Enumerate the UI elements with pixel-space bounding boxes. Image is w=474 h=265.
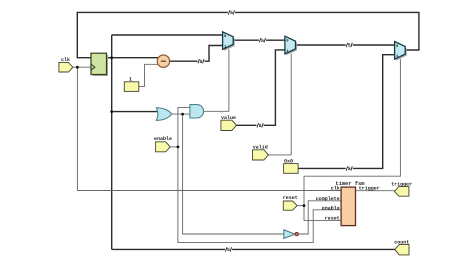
wire: inverter output complete net to fsm complete pin	[299, 201, 341, 234]
wire: OR output net down to inverter input	[183, 114, 284, 234]
inverter G3	[284, 230, 299, 239]
bus width label /5/ on mux M2 to mux M3 bus	[346, 42, 353, 49]
bus width label /5/ on count bus	[225, 247, 232, 254]
wire: OR gate output to AND gate input B	[172, 113, 190, 115]
wire: mux M2 output to mux M3 input 0	[296, 44, 395, 46]
wire: reset net to fsm reset pin	[304, 220, 341, 222]
bus width label /5/ on 0x0 bus	[346, 166, 353, 173]
bus width label /5/ on feedback bus	[228, 10, 235, 17]
input port valid	[253, 145, 269, 161]
fsm block timer fsm	[316, 181, 380, 226]
svg-text:enable: enable	[322, 206, 340, 212]
wire: reset net to mux M3 select	[304, 59, 400, 176]
svg-text:reset: reset	[325, 215, 340, 221]
wire: Q bus to mux M1 input 0	[112, 34, 223, 36]
wire: constant 0x0 to mux M3 input 1	[298, 55, 395, 169]
wire: feedback bus mux3 output to register D input	[77, 12, 419, 57]
wire: register Q bus vertical trunk	[111, 35, 113, 249]
wire: Q bus to reduction-OR input	[112, 111, 158, 113]
svg-text:5: 5	[200, 59, 203, 65]
input port clk	[59, 57, 73, 72]
bus width label /5/ on mux M1 to mux M2 bus	[259, 37, 266, 44]
svg-text:5: 5	[348, 166, 351, 172]
svg-text:trigger: trigger	[359, 185, 380, 191]
subtractor minus sign	[161, 60, 166, 62]
wire: enable net down to fsm enable pin	[178, 147, 341, 243]
junction node on OR output net	[181, 113, 184, 116]
wire: valid port to mux M2 select	[268, 54, 291, 155]
svg-text:reset: reset	[283, 195, 298, 201]
wire: register Q output stub to node	[107, 57, 112, 59]
wire: enable net up to AND gate input A	[178, 107, 190, 146]
wire: reset net vertical	[303, 176, 305, 220]
wire: fsm trigger pin to trigger port	[356, 190, 395, 192]
svg-text:5: 5	[227, 247, 230, 253]
junction node on register Q output	[110, 56, 113, 59]
wire: count output bus	[112, 248, 395, 250]
svg-text:5: 5	[259, 123, 262, 129]
constant 0x0	[284, 158, 299, 173]
mux M1	[223, 32, 235, 51]
wire: reset port stub to node	[297, 205, 304, 207]
constant 1	[124, 77, 139, 92]
svg-text:5: 5	[348, 43, 351, 49]
bus width label /5/ on subtractor output	[197, 58, 204, 65]
wire: enable port stub to node	[170, 146, 178, 148]
svg-text:complete: complete	[316, 196, 340, 202]
junction node on enable net	[177, 146, 180, 149]
mux M2	[285, 36, 297, 55]
svg-text:5: 5	[261, 38, 264, 44]
mux M3	[395, 42, 407, 61]
junction node Q bus to OR gate tap	[110, 110, 113, 113]
bus width label /5/ on value bus	[257, 122, 264, 129]
wire: subtractor output to mux M1 input 1	[170, 46, 223, 62]
register clock pin wedge	[91, 64, 95, 70]
and gate G2	[190, 105, 204, 118]
svg-text:enable: enable	[154, 136, 172, 142]
input port value	[221, 115, 237, 131]
wire: AND gate output to mux M1 select	[204, 49, 229, 111]
svg-text:clk: clk	[331, 185, 340, 191]
svg-text:5: 5	[230, 10, 233, 16]
or gate G1 (reduction OR)	[156, 108, 171, 121]
wire: mux M1 output to mux M2 input 0	[233, 39, 285, 41]
wire: value port to mux M2 input 1	[236, 50, 285, 125]
junction node on clk net	[76, 66, 79, 69]
input port reset	[283, 195, 298, 210]
output port count	[394, 239, 409, 255]
wire: clk port to register clock pin	[73, 66, 91, 68]
wire: constant 1 to subtractor input B	[139, 64, 159, 86]
output port trigger	[391, 182, 412, 197]
register R1	[91, 53, 108, 76]
wire: Q bus to subtractor input A	[112, 57, 159, 59]
wire: clk net down to fsm clk pin	[77, 67, 341, 190]
inverter output bubble	[295, 232, 298, 235]
subtractor U1	[157, 55, 169, 67]
junction node on reset net	[303, 204, 306, 207]
input port enable	[154, 136, 172, 152]
